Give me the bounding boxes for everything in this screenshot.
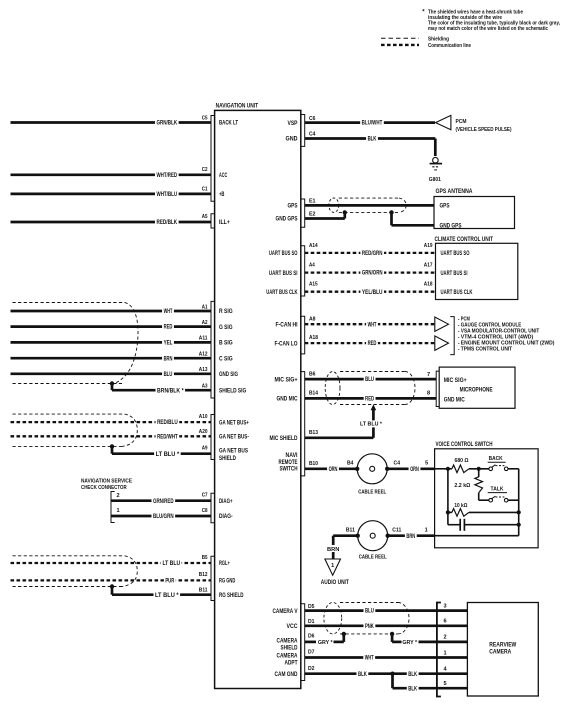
svg-text:AUDIO UNIT: AUDIO UNIT [321,580,349,586]
svg-text:ADPT: ADPT [285,660,298,666]
svg-text:B12: B12 [199,572,208,578]
TALK switch [479,486,519,502]
wire YEL/BLU A15 to climate control A18 (UART BUS CLK) [305,288,436,296]
svg-text:RED/BLU: RED/BLU [157,420,178,426]
F-CAN HI arrow [435,317,449,331]
svg-text:1: 1 [444,650,447,656]
svg-text:YEL/BLU: YEL/BLU [362,290,383,296]
svg-text:GRN/RED: GRN/RED [153,499,174,505]
pin label B14 [309,391,319,397]
pin label C6 [309,116,316,122]
svg-text:WHT/BLU: WHT/BLU [156,192,177,198]
pin label A18 [424,282,433,288]
left connector bracket B5-B11 [211,556,215,600]
svg-text:ILL+: ILL+ [219,220,230,226]
pin label A11 [199,336,208,342]
wire ORN B10 navi remote switch [305,465,358,473]
camera pin 2 wire [437,635,468,642]
camera pin 5 wire [437,681,468,688]
svg-text:GRN/BLK: GRN/BLK [156,121,177,127]
svg-text:A4: A4 [309,263,316,269]
svg-text:CLIMATE CONTROL UNIT: CLIMATE CONTROL UNIT [435,237,494,243]
svg-text:BACK: BACK [489,456,503,462]
svg-text:D6: D6 [308,634,315,640]
svg-text:GND GPS: GND GPS [276,217,298,223]
navigation unit U1 box [215,102,301,688]
nav unit terminal CAMERA V [273,609,298,615]
pin label B6 [309,371,316,377]
svg-text:B13: B13 [309,430,318,436]
shield around RGL wires [13,556,138,587]
shield around GA NET BUS wires [13,414,138,446]
pin label B13 [309,430,318,436]
GPS antenna box [434,189,515,230]
svg-text:A5: A5 [202,214,208,220]
svg-text:GPS: GPS [288,204,298,210]
svg-text:WHT: WHT [368,322,377,328]
pin label D5 [308,604,315,610]
svg-text:BLK: BLK [408,672,417,678]
svg-text:F-CAN LO: F-CAN LO [275,341,298,347]
camera pin 3 wire [437,603,468,610]
svg-text:A3: A3 [202,383,208,389]
wire WHT D7 CAMERA ADPT [305,654,437,662]
pin label C5 [202,115,208,121]
nav unit terminal RGL+ [219,561,230,567]
svg-text:GND MIC: GND MIC [277,397,299,403]
svg-text:RED: RED [365,397,374,403]
wire BLU/WHT C6 VSP to PCM [305,119,435,127]
svg-text:DIAG+: DIAG+ [219,499,233,505]
wire BRN B11 to audio unit [326,536,358,559]
camera pin 1 wire [437,650,468,657]
svg-text:CABLE REEL: CABLE REEL [359,555,387,561]
pin label A8 [309,317,316,323]
svg-text:A11: A11 [199,336,208,342]
svg-text:A18: A18 [424,282,433,288]
svg-text:PUR: PUR [165,579,174,585]
climate control unit box [435,237,518,300]
svg-text:RG GND: RG GND [219,579,236,585]
left connector bracket A10-A9 [211,415,215,460]
legend: communication line sample [381,43,471,49]
svg-text:A15: A15 [309,282,318,288]
wire right rail [518,469,520,536]
nav unit terminal RG SHIELD [219,593,244,599]
svg-text:TPMS CONTROL UNIT: TPMS CONTROL UNIT [461,347,513,353]
svg-text:5: 5 [425,461,428,467]
right connector bracket B6-B10 [301,372,305,476]
pin label A19 [424,243,433,249]
wire WHT/RED to pin C2 (ACC) [11,171,212,179]
svg-text:GND MIC: GND MIC [444,397,466,403]
microphone pin 8 [427,390,430,396]
resistor 10k ohm [446,503,521,516]
svg-text:+B: +B [219,192,225,198]
svg-text:TALK: TALK [491,486,504,492]
nav unit terminal G SIG [219,325,233,331]
PCM arrow (vehicle speed pulse) [436,115,512,132]
svg-text:BLK: BLK [408,686,417,692]
pin label D6 [308,634,315,640]
service connector pin 1 [117,508,120,514]
pin label B11 [199,587,208,593]
nav unit terminal VCC [287,624,299,630]
wire GND GPS E2 via shield [305,212,434,225]
svg-text:7: 7 [427,372,430,378]
wire BLK to camera pin 4 [393,670,437,678]
svg-text:CAM GND: CAM GND [275,672,299,678]
wire RED B14 GND MIC to microphone pin 8 [305,395,437,403]
svg-text:ORN: ORN [410,467,419,473]
nav unit terminal BACK LT [219,121,238,127]
nav unit terminal R SIG [219,309,233,315]
wire WHT/BLU to pin C1 (+B) [11,190,212,198]
svg-text:R SIG: R SIG [219,309,233,315]
ground G801 [429,157,442,183]
nav unit terminal ILL+ [219,220,230,226]
wire BLK D2 CAM GND [305,670,393,678]
svg-text:WHT/RED: WHT/RED [156,173,177,179]
svg-text:B4: B4 [347,461,354,467]
svg-text:BLU: BLU [365,609,374,615]
node after 680 ohm [469,467,489,471]
pin label A2 [202,320,208,326]
pin label A10 [199,414,208,420]
svg-text:A20: A20 [199,429,208,435]
wire BLK C4 GND to ground [305,135,436,156]
rearview camera box [467,603,538,697]
voice control switch pin 5 [425,461,428,467]
right connector bracket A14-A15 [301,246,305,296]
pin label A17 [424,263,433,269]
wire ORN C4 to voice control switch pin 5 [387,465,434,473]
voice control switch box [435,442,538,548]
pin label A5 [202,214,208,220]
pin label C4 [309,132,316,138]
wire RED/BLU to pin A10 (GA NET BUS+) [11,419,212,427]
svg-text:VOICE CONTROL SWITCH: VOICE CONTROL SWITCH [436,442,493,448]
svg-text:(VEHICLE SPEED PULSE): (VEHICLE SPEED PULSE) [456,127,512,133]
svg-text:SWITCH: SWITCH [280,467,298,473]
svg-text:A8: A8 [309,317,316,323]
svg-text:UART BUS SO: UART BUS SO [441,251,470,257]
pin label B4 [347,461,354,467]
svg-text:RG SHIELD: RG SHIELD [219,593,244,599]
wire LT BLU to pin B5 (RGL+) [11,560,212,568]
svg-text:NAVIGATION SERVICE: NAVIGATION SERVICE [81,478,132,484]
svg-text:Shielding: Shielding [428,36,449,42]
pin label D1 [308,619,315,625]
F-CAN destination list bracket [450,317,454,355]
svg-text:B SIG: B SIG [219,341,233,347]
wire GRY* D6 CAMERA SHIELD via shield [305,634,437,646]
nav unit terminal GA NET BUS- [219,435,249,441]
pin label A18 [309,335,318,341]
svg-text:ORN: ORN [329,467,338,473]
svg-text:C7: C7 [202,493,208,499]
resistor 2.2k ohm [454,469,482,500]
wire LT BLU * to pin A9 (GA NET BUS) [112,450,211,458]
svg-text:B14: B14 [309,391,319,397]
nav unit terminal CAM GND [275,672,299,678]
svg-text:GA NET BUS+: GA NET BUS+ [219,420,249,426]
audio unit off-page arrow 1 [321,559,349,586]
wire WHT to pin A1 (R SIG) [11,308,212,316]
pin label B5 [202,555,208,561]
pin label A12 [199,351,208,357]
svg-text:1: 1 [425,528,428,534]
shield drain junction to SHIELD SIG [110,381,114,390]
wire PNK D1 VCC [305,622,437,630]
left connector bracket C5-C1 [211,116,215,202]
camera pin 4 wire [437,667,468,674]
pin label A1 [202,304,208,310]
pin label D7 [308,650,315,656]
wire GRN/RED to pin C7 (DIAG+) [111,497,211,505]
svg-text:VCC: VCC [287,624,299,630]
svg-text:1: 1 [331,563,334,569]
svg-text:BLK: BLK [368,137,377,143]
wire RED/BLK to pin A5 (ILL+) [11,219,212,227]
resistor 680 ohm [452,458,469,473]
svg-text:BLU: BLU [164,372,173,378]
svg-text:CAMERA: CAMERA [489,650,512,656]
nav unit terminal CAMERA SHIELD [277,639,299,652]
svg-text:A17: A17 [424,263,433,269]
svg-text:UART BUS SI: UART BUS SI [269,271,298,277]
wire BRN to pin A12 (C SIG) [11,355,212,363]
svg-text:10 kΩ: 10 kΩ [454,503,467,509]
svg-text:A19: A19 [424,243,433,249]
svg-text:680 Ω: 680 Ω [455,458,469,464]
shield around camera wires [324,603,409,634]
pin label A20 [199,429,208,435]
svg-text:LT BLU: LT BLU [162,561,180,567]
wire left rail [447,469,449,525]
svg-text:RED/BLK: RED/BLK [156,220,177,226]
nav unit terminal +B [219,192,225,198]
svg-text:G801: G801 [429,177,441,183]
nav unit terminal UART BUS CLK [266,290,298,296]
pin label C2 [202,167,208,173]
BLK junction split [390,672,394,689]
pin label B12 [199,572,208,578]
capacitor C1 (VCS) [448,519,521,531]
nav unit terminal GND GPS [276,217,298,223]
camera shield junction dots [342,632,395,636]
F-CAN destination module list [458,316,555,352]
svg-text:may not match color of the wir: may not match color of the wire listed o… [428,26,548,32]
pin label C1 [202,187,208,193]
BACK switch [488,456,519,471]
wire LT BLU * to pin B11 (RG SHIELD) [112,591,211,599]
shield around GPS wires [329,198,406,212]
voice control switch pin 1 [425,528,428,534]
svg-text:B5: B5 [202,555,208,561]
camera pin 6 wire [437,619,468,626]
svg-text:VSP: VSP [288,121,298,127]
pin label B10 [309,461,318,467]
svg-text:C SIG: C SIG [219,356,233,362]
svg-text:A2: A2 [202,320,208,326]
svg-text:D5: D5 [308,604,315,610]
nav unit terminal DIAG- [219,514,233,520]
svg-text:WHT: WHT [164,309,173,315]
nav unit terminal GA NET BUS+ [219,420,249,426]
svg-text:GPS: GPS [440,204,450,210]
right connector bracket C6-C4 [301,115,305,147]
svg-text:B6: B6 [309,371,316,377]
svg-text:RED/GRN: RED/GRN [362,251,383,257]
shield around R/G/B/C/GND SIG wires [13,303,139,384]
svg-text:RED: RED [164,325,173,331]
pin label A9 [202,446,208,452]
nav unit terminal ACC [219,173,228,179]
svg-text:CAMERA: CAMERA [277,653,299,659]
legend: shielding line sample [381,36,449,42]
svg-text:LT BLU *: LT BLU * [155,593,179,599]
svg-text:MIC SHIELD: MIC SHIELD [270,436,299,442]
svg-text:UART BUS SI: UART BUS SI [441,271,468,277]
nav unit terminal NAVI REMOTE SWITCH [279,453,298,472]
svg-text:GND SIG: GND SIG [219,372,238,378]
nav unit terminal MIC SHIELD [270,436,299,442]
svg-text:CAMERA: CAMERA [277,639,299,645]
navigation service check connector [81,478,132,522]
svg-text:B11: B11 [199,587,208,593]
svg-text:NAVIGATION UNIT: NAVIGATION UNIT [216,102,259,109]
microphone pin 7 [427,372,430,378]
legend: shielded-wire note [422,9,560,32]
nav unit terminal VSP [288,121,298,127]
svg-text:C2: C2 [202,167,208,173]
svg-text:REARVIEW: REARVIEW [489,643,516,649]
right connector bracket A8-A18 [301,316,305,354]
microphone box [439,367,515,408]
service connector pin 2 [117,493,120,499]
svg-text:BRN: BRN [164,356,173,362]
svg-text:MIC SIG+: MIC SIG+ [275,377,298,383]
wire LT BLU* B13 MIC SHIELD drain [305,404,387,438]
svg-text:GPS ANTENNA: GPS ANTENNA [436,189,474,195]
svg-text:RGL+: RGL+ [219,561,230,567]
nav unit terminal C SIG [219,356,233,362]
svg-text:A18: A18 [309,335,318,341]
svg-text:2: 2 [444,635,447,641]
svg-text:G SIG: G SIG [219,325,233,331]
rearview camera connector bracket [437,603,441,697]
svg-text:SHIELD: SHIELD [219,456,237,462]
wire PUR to pin B12 (RG GND) [11,577,212,585]
wire RED A18 F-CAN LO [305,340,435,348]
wire BLU B6 MIC SIG+ to microphone pin 7 [305,376,437,384]
pin label A4 [309,263,316,269]
svg-text:UART BUS CLK: UART BUS CLK [441,290,473,296]
svg-text:NAVI: NAVI [286,453,298,459]
pin label A3 [202,383,208,389]
pin label A14 [309,243,318,249]
svg-text:C4: C4 [394,461,401,467]
svg-text:RED: RED [368,341,377,347]
wire VCS output to pin 1 [435,535,519,537]
wire GPS E1 to GPS antenna [305,204,434,207]
svg-text:Communication line: Communication line [428,43,471,49]
svg-text:ACC: ACC [219,173,228,179]
svg-text:SHIELD SIG: SHIELD SIG [219,388,246,394]
wire BLU to pin A13 (GND SIG) [11,370,212,378]
F-CAN LO arrow [435,336,449,350]
svg-text:BLU: BLU [365,377,374,383]
svg-text:A14: A14 [309,243,318,249]
svg-text:CHECK CONNECTOR: CHECK CONNECTOR [81,485,127,491]
nav unit terminal GND MIC [277,397,299,403]
cable reel 1 [355,454,389,496]
wire YEL to pin A11 (B SIG) [11,339,212,347]
svg-text:CABLE REEL: CABLE REEL [358,489,386,495]
left connector bracket C7-C8 [211,493,215,523]
wire RED/GRN A14 to climate control A19 (UART BUS SO) [305,249,436,257]
wire RED/WHT to pin A20 (GA NET BUS-) [11,433,212,441]
nav unit terminal GPS [288,204,298,210]
nav unit terminal GND [286,137,299,143]
shield drain junction to RG SHIELD [110,584,114,594]
wire GRN/ORN A4 to climate control A17 (UART BUS SI) [305,269,436,277]
pin label D2 [308,666,315,672]
nav unit terminal F-CAN HI [276,322,298,328]
nav unit terminal F-CAN LO [275,341,298,347]
svg-text:LT BLU *: LT BLU * [156,452,180,458]
svg-text:MIC SIG+: MIC SIG+ [444,378,467,384]
svg-text:UART BUS CLK: UART BUS CLK [266,290,298,296]
pin label C11 [392,528,401,534]
nav unit terminal CAMERA ADPT [277,653,299,666]
svg-text:BRN/BLK *: BRN/BLK * [157,388,184,394]
GPS shield junction dots [343,210,394,214]
svg-text:E2: E2 [309,212,316,218]
svg-text:MICROPHONE: MICROPHONE [460,388,493,394]
svg-text:D7: D7 [308,650,315,656]
svg-text:RED/WHT: RED/WHT [157,434,178,440]
svg-text:C4: C4 [309,132,316,138]
svg-text:GND GPS: GND GPS [440,223,462,229]
shield around microphone wires [325,372,415,405]
pin label B11 (cable reel) [346,528,355,534]
left connector bracket A5 [211,214,215,228]
svg-text:LT BLU *: LT BLU * [360,421,383,427]
left connector bracket A1-A3 [211,301,215,398]
svg-text:A9: A9 [202,446,208,452]
svg-text:BRN: BRN [406,534,415,540]
microphone connector bracket [436,371,439,406]
svg-text:C8: C8 [202,508,208,514]
svg-text:BLK: BLK [358,672,367,678]
svg-text:8: 8 [427,390,430,396]
svg-text:2.2 kΩ: 2.2 kΩ [454,483,470,489]
nav unit terminal GND SIG [219,372,238,378]
pin label E1 [309,199,316,205]
svg-text:BLU/WHT: BLU/WHT [362,121,383,127]
svg-text:SHIELD: SHIELD [281,646,299,652]
nav unit terminal RG GND [219,579,236,585]
svg-text:E1: E1 [309,199,316,205]
nav unit terminal UART BUS SO [269,251,298,257]
wire RED to pin A2 (G SIG) [11,323,212,331]
wire GRN/BLK to pin C5 (BACK LT) [11,119,212,127]
nav unit terminal MIC SIG+ [275,377,298,383]
pin label A15 [309,282,318,288]
pin label C7 [202,493,208,499]
